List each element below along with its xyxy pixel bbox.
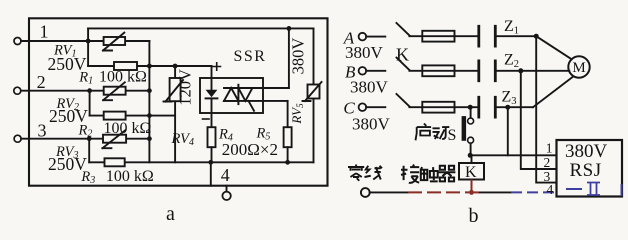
wire A to fuse [409,35,477,37]
varistor RV1 [103,33,125,51]
wire neutral red dashed [408,180,479,195]
svg-text:1: 1 [40,22,49,42]
resistor R1 [88,62,211,70]
wire Z1 down to RSJ 3 [536,36,556,182]
contact Z1 bars [479,26,496,46]
wire terminal4 drop [210,162,212,185]
svg-text:4: 4 [221,165,230,185]
wire Z2 to motor [497,70,570,72]
triac MT2 wire [224,100,288,102]
svg-text:3: 3 [38,121,47,141]
node Z3 [505,105,510,110]
fuse FU1 [422,31,454,42]
wire top bypass [88,27,313,29]
char jie1 of jiechuqi [401,165,419,183]
wire bottom internal [89,161,313,163]
wire LED cathode to R4 [211,98,213,127]
motor M [568,56,589,77]
svg-text:380V: 380V [350,78,389,97]
fuse FU3 [422,102,454,113]
wire riser cell3 left [88,139,90,163]
terminal 3 [14,135,21,142]
svg-text:380V: 380V [345,43,384,62]
node cell1 bottom bus [147,64,152,69]
contactor coil K box [459,163,484,180]
wire vertical bus [148,41,150,162]
char ling2 of lingxian [348,165,364,181]
node C button tap [468,105,473,110]
svg-text:S: S [448,127,457,144]
wire B stub [366,70,385,72]
labels circuit b [343,18,608,227]
wire neutral black left [370,191,408,193]
wire Z1 to node [497,35,537,37]
char qi4 of jiechuqi [439,166,456,182]
node Z2 [518,68,523,73]
wire 1 [21,40,149,42]
triac MT1 wire [224,87,289,89]
minus sign [203,118,210,120]
resistor R4 [208,127,216,147]
svg-text:2: 2 [544,155,551,170]
diode D1 [206,90,218,99]
terminal 1 [14,38,21,45]
Chinese characters drawn as strokes [348,124,455,183]
node Z1 [534,34,539,39]
RSJ module box [557,140,623,197]
wire to RSJ 1 [470,154,556,156]
svg-text:1: 1 [546,141,553,156]
svg-text:K: K [465,164,477,181]
wire 3 [21,138,149,140]
svg-text:SSR: SSR [234,48,267,65]
resistor R5 [284,127,292,147]
node coil neutral red [469,190,474,195]
wire R4 bottom [211,147,213,162]
varistor RV3 [102,130,126,148]
wire C to fuse [409,106,477,108]
wire node to coil K [471,155,473,163]
node on wire 1 [86,39,91,44]
wire riser cell2 left [89,91,91,116]
terminal B [359,67,367,75]
labels circuit a [37,22,308,226]
wire A stub [366,36,385,38]
svg-text:380V: 380V [565,141,608,162]
wire neutral blue dashed [511,191,557,193]
wire button drop [470,107,472,118]
wire triac MT1 riser [288,28,290,88]
svg-text:RSJ: RSJ [570,160,602,181]
varistor RV4 120V [164,66,184,162]
contact Z3 bars [479,97,496,117]
resistor R3 [105,158,125,166]
wire B to fuse [409,70,477,72]
wire button to node [470,143,472,155]
wire Z3 to motor [533,77,573,107]
wire triac MT2 drop [287,101,289,127]
varistor RV2 [103,82,126,100]
fuse FU2 [422,65,454,76]
triac V1 [224,85,254,111]
pushbutton S plunger [462,116,467,141]
svg-text:4: 4 [547,182,554,197]
terminal 4 [222,186,230,200]
node bus cell2 bottom [147,113,152,118]
op-amp SSR inner box [200,78,263,113]
plus sign [213,63,221,70]
contact Z2 bars [479,61,496,81]
node R4 bottom [208,160,213,165]
wire riser cell1 left [87,28,89,66]
terminal A [359,33,367,41]
node cell1 bottom RV4 tap [173,64,178,69]
svg-text:b: b [469,205,479,227]
wire LED anode [211,66,213,90]
svg-text:380V: 380V [352,115,391,134]
resistor R2 [90,112,176,120]
varistor RV5 380V [303,28,322,162]
wire neutral black mid [479,191,511,193]
wire C stub [366,106,385,108]
node top wire [287,26,292,31]
svg-text:M: M [572,60,585,76]
wire R5 bottom [287,147,289,162]
svg-text:K: K [396,45,409,65]
svg-text:2: 2 [37,72,46,92]
wire Z3 right [497,106,533,108]
node bus wire2 [147,88,152,93]
char qi3 of qidong [416,124,432,141]
blue mark box edge [621,184,623,196]
wire Z3 down [507,107,509,155]
terminal neutral [361,188,370,197]
char dong4 of qidong [433,127,450,139]
switch K blade B [397,58,410,70]
wire Z2 down to RSJ 2 [521,71,557,169]
svg-text:100 kΩ: 100 kΩ [106,168,154,185]
svg-text:100 kΩ: 100 kΩ [99,69,147,86]
svg-text:380V: 380V [289,38,308,75]
node bus wire3 [147,136,152,141]
char xian4 of lingxian [365,166,383,180]
node button bottom [468,153,473,158]
outer box of module a [29,18,328,185]
svg-text:120V: 120V [176,69,195,106]
label II blue in RSJ [566,183,622,197]
switch K blade C [397,94,410,106]
svg-text:100 kΩ: 100 kΩ [104,120,152,137]
terminal C [359,103,367,111]
pushbutton S contact circles [468,118,474,124]
wire 2 [21,90,150,92]
node on wire 3 [87,136,92,141]
node on wire 2 [87,88,92,93]
wire coil stub red [471,180,473,193]
node R5 bottom [285,160,290,165]
char chu4 of jiechuqi [421,167,438,181]
circuit b [359,23,590,197]
wire Z1 to motor [536,36,572,59]
switch K blade A [397,23,410,35]
svg-text:a: a [166,203,175,225]
svg-text:200Ω×2: 200Ω×2 [222,140,278,159]
terminal 2 [14,87,21,94]
